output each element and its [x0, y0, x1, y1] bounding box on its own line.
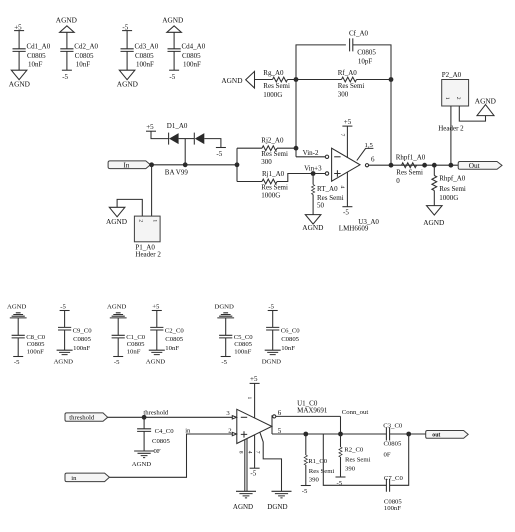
wire	[173, 51, 175, 70]
wire	[143, 417, 145, 429]
svg-text:AGND: AGND	[302, 223, 323, 232]
resistor Rf_A0	[338, 69, 365, 99]
svg-text:1: 1	[246, 397, 252, 400]
wire	[204, 139, 221, 148]
svg-text:C0805: C0805	[27, 341, 45, 348]
svg-text:DGND: DGND	[267, 503, 287, 511]
svg-text:Rhpf1_A0: Rhpf1_A0	[396, 154, 426, 162]
svg-text:50: 50	[317, 202, 325, 210]
power +5 (C2_C0 top)	[152, 303, 162, 310]
svg-text:Cf_A0: Cf_A0	[349, 30, 369, 38]
ground DGND (C5_C0 top)	[215, 304, 235, 318]
ground AGND (C2_C0)	[146, 350, 165, 365]
wire	[64, 330, 66, 350]
svg-text:1000G: 1000G	[261, 192, 280, 200]
svg-text:AGND: AGND	[423, 218, 444, 227]
wire	[151, 131, 169, 138]
svg-text:2: 2	[138, 219, 144, 222]
wire	[108, 416, 233, 418]
resistor Rj1_A0	[237, 170, 325, 199]
wire	[126, 31, 128, 49]
comparator U1_C0 MAX9691	[232, 400, 328, 444]
wire	[390, 433, 426, 435]
power +5 (Cd1)	[14, 23, 24, 31]
svg-text:-5: -5	[114, 359, 120, 366]
svg-text:C2_C0: C2_C0	[165, 327, 185, 334]
svg-text:1: 1	[151, 219, 157, 222]
node on In net (split)	[235, 162, 240, 167]
svg-text:10nF: 10nF	[127, 349, 141, 356]
wire	[390, 80, 392, 166]
svg-text:out: out	[432, 433, 440, 439]
port Out	[458, 161, 502, 170]
svg-text:AGND: AGND	[146, 358, 165, 365]
node (output)	[389, 163, 394, 168]
svg-text:C0805: C0805	[27, 52, 46, 60]
svg-text:8: 8	[237, 451, 243, 454]
wire	[357, 79, 392, 81]
resistor Rj2_A0	[237, 136, 296, 166]
svg-text:Rf_A0: Rf_A0	[338, 69, 358, 77]
ground AGND (RT)	[302, 215, 323, 233]
svg-text:Rg_A0: Rg_A0	[263, 69, 284, 77]
svg-text:Rj2_A0: Rj2_A0	[261, 136, 284, 144]
wire	[117, 338, 119, 357]
wire	[151, 165, 153, 216]
pin 1 +5 power	[246, 375, 259, 418]
svg-text:C0805: C0805	[152, 438, 170, 445]
svg-text:C1_C0: C1_C0	[126, 334, 146, 341]
svg-text:7: 7	[255, 451, 261, 454]
wire	[18, 31, 20, 49]
resistor Rhpf1_A0	[396, 154, 426, 186]
capacitor Cd1_A0	[13, 43, 51, 69]
svg-text:Vin-2: Vin-2	[303, 149, 319, 157]
svg-text:0F: 0F	[154, 448, 161, 455]
resistor Rhpf_A0	[432, 165, 466, 205]
wire	[143, 431, 145, 451]
svg-text:C4_C0: C4_C0	[155, 428, 175, 435]
svg-text:6: 6	[371, 156, 375, 164]
node (Vin+ / RT)	[311, 171, 316, 176]
svg-text:P2_A0: P2_A0	[442, 71, 462, 79]
ground DGND (C6_C0)	[262, 350, 281, 365]
capacitor C6_C0	[266, 327, 300, 351]
wire	[340, 416, 342, 434]
ground AGND (C1_C0 top)	[107, 304, 127, 318]
svg-text:390: 390	[309, 476, 320, 483]
ground AGND (C9_C0)	[54, 350, 73, 365]
svg-text:3: 3	[226, 410, 230, 417]
power -5 (C9_C0 top)	[60, 303, 70, 310]
svg-text:D1_A0: D1_A0	[167, 122, 188, 130]
svg-text:Rhpf_A0: Rhpf_A0	[439, 175, 466, 183]
power -5 (Cd3)	[122, 23, 132, 31]
resistor RT_A0	[311, 174, 343, 215]
svg-text:AGND: AGND	[107, 304, 126, 311]
svg-text:Res Semi: Res Semi	[261, 184, 288, 192]
node (Rhpf)	[432, 163, 437, 168]
svg-text:300: 300	[338, 91, 349, 99]
svg-text:Res Semi: Res Semi	[439, 185, 466, 193]
svg-text:Res Semi: Res Semi	[309, 468, 335, 475]
pin -5 power	[250, 435, 260, 478]
pins 1,5	[357, 142, 374, 161]
svg-text:0F: 0F	[384, 451, 391, 458]
svg-text:AGND: AGND	[117, 80, 138, 89]
svg-text:Res Semi: Res Semi	[317, 194, 344, 202]
power -5 (D1)	[216, 148, 226, 158]
svg-text:-5: -5	[302, 488, 308, 495]
power -5 (R1)	[301, 486, 311, 496]
svg-text:300: 300	[261, 158, 272, 166]
svg-text:R1_C0: R1_C0	[308, 458, 328, 465]
pin 6 output	[276, 409, 341, 417]
svg-text:Res Semi: Res Semi	[263, 82, 290, 90]
svg-text:-5: -5	[62, 73, 68, 81]
power -5 (C8_C0)	[13, 357, 23, 367]
svg-text:AGND: AGND	[106, 217, 127, 226]
svg-text:C0805: C0805	[127, 341, 145, 348]
power -5 (R2)	[336, 477, 346, 487]
svg-text:R2_C0: R2_C0	[344, 447, 364, 454]
svg-text:10nF: 10nF	[281, 345, 295, 352]
svg-text:4: 4	[247, 451, 253, 454]
wire	[126, 51, 128, 70]
svg-text:-5: -5	[14, 359, 20, 366]
svg-text:in: in	[71, 475, 77, 482]
port threshold	[65, 413, 108, 422]
capacitor C7_C0	[384, 475, 404, 512]
svg-text:+5: +5	[152, 303, 160, 310]
svg-text:2: 2	[455, 97, 461, 100]
wire	[179, 138, 195, 140]
wire	[353, 45, 391, 80]
svg-text:Out: Out	[469, 161, 480, 170]
svg-text:C3_C0: C3_C0	[383, 422, 403, 429]
power -5 (C5_C0)	[221, 357, 231, 367]
svg-text:DGND: DGND	[262, 358, 281, 365]
svg-text:-5: -5	[216, 150, 222, 158]
node (out)	[406, 432, 411, 437]
svg-text:C9_C0: C9_C0	[73, 327, 93, 334]
ground AGND (Cd4 top)	[162, 15, 183, 32]
ground AGND (Cd1)	[9, 70, 30, 88]
wire	[109, 434, 232, 477]
ground AGND (P2)	[475, 96, 496, 115]
svg-text:AGND: AGND	[221, 76, 242, 85]
power -5 (Cd4)	[169, 70, 179, 81]
svg-text:DGND: DGND	[215, 304, 234, 311]
wire	[369, 164, 459, 166]
svg-text:-5: -5	[221, 359, 227, 366]
svg-text:Rj1_A0: Rj1_A0	[262, 170, 285, 178]
power -5 (C6_C0 top)	[268, 303, 278, 310]
svg-text:-5: -5	[268, 303, 274, 310]
capacitor C5_C0	[219, 334, 253, 356]
port In	[108, 161, 150, 169]
svg-text:6: 6	[278, 409, 282, 417]
capacitor Cf_A0	[349, 30, 376, 66]
svg-text:Res Semi: Res Semi	[396, 169, 423, 177]
diode D1_A0 BAV99 (right half)	[165, 133, 205, 177]
svg-text:C0805: C0805	[73, 336, 91, 343]
wire	[390, 434, 409, 485]
capacitor Cd4_A0	[168, 43, 206, 69]
svg-text:AGND: AGND	[9, 80, 30, 89]
node (pin6 join)	[338, 432, 343, 437]
svg-text:AGND: AGND	[132, 461, 151, 468]
svg-text:C0805: C0805	[135, 52, 154, 60]
svg-text:C0805: C0805	[182, 52, 201, 60]
svg-text:10nF: 10nF	[76, 61, 91, 69]
node (C4)	[142, 415, 147, 420]
capacitor Cd2_A0	[60, 43, 98, 69]
pin 7 +5 power	[339, 118, 352, 158]
wire	[296, 156, 325, 158]
svg-text:Cd4_A0: Cd4_A0	[182, 43, 206, 51]
svg-text:AGND: AGND	[56, 15, 77, 24]
node (inverting net)	[294, 77, 299, 82]
wire	[296, 45, 346, 80]
wire	[184, 139, 186, 165]
svg-text:+5: +5	[146, 123, 154, 131]
pin 5 output wire	[272, 427, 386, 435]
svg-text:C5_C0: C5_C0	[234, 334, 254, 341]
power -5 (Cd2)	[62, 70, 72, 81]
wire	[17, 318, 19, 335]
wire	[17, 338, 19, 357]
wire	[459, 106, 485, 121]
ground AGND (Rhpf)	[423, 206, 444, 228]
pin 4 -5 power	[339, 172, 352, 217]
wire	[450, 106, 452, 165]
wire	[64, 311, 66, 328]
power +5 (D1)	[146, 123, 156, 131]
node (P2)	[449, 163, 454, 168]
svg-text:In: In	[124, 161, 130, 169]
wire	[66, 51, 68, 70]
svg-text:5: 5	[278, 427, 282, 435]
node on In net (diodes)	[183, 162, 188, 167]
svg-text:C6_C0: C6_C0	[281, 327, 301, 334]
svg-text:threshold: threshold	[69, 415, 95, 422]
svg-text:C0805: C0805	[75, 52, 94, 60]
node (R1)	[303, 432, 308, 437]
node	[422, 163, 427, 168]
svg-text:0: 0	[396, 177, 400, 185]
svg-text:100nF: 100nF	[73, 345, 90, 352]
op-amp U3_A0 LMH6609	[325, 148, 379, 232]
capacitor C8_C0	[12, 334, 46, 356]
svg-text:100nF: 100nF	[234, 349, 251, 356]
svg-text:BA V99: BA V99	[165, 169, 189, 177]
ground AGND (Cd2 top)	[56, 15, 77, 32]
svg-text:MAX9691: MAX9691	[297, 406, 328, 414]
svg-text:Res Semi: Res Semi	[345, 457, 371, 464]
ground AGND (left arrow at Rg)	[221, 71, 254, 88]
svg-text:AGND: AGND	[162, 15, 183, 24]
ground AGND (Cd3)	[117, 70, 138, 88]
power -5 (C1_C0)	[113, 357, 123, 367]
svg-text:RT_A0: RT_A0	[317, 185, 338, 193]
capacitor C4_C0	[137, 428, 174, 455]
node on In net (P1)	[149, 162, 154, 167]
svg-text:C0805: C0805	[165, 336, 183, 343]
wire	[173, 32, 175, 49]
svg-text:Conn_out: Conn_out	[342, 409, 369, 416]
wire	[288, 79, 342, 81]
svg-text:100nF: 100nF	[27, 349, 44, 356]
connector P1_A0 Header 2	[134, 216, 161, 258]
svg-text:100nF: 100nF	[384, 505, 401, 512]
wire	[117, 318, 119, 335]
wire	[236, 148, 238, 181]
port in	[65, 473, 109, 482]
wire	[66, 32, 68, 49]
svg-text:threshold: threshold	[143, 409, 169, 416]
svg-text:AGND: AGND	[7, 304, 26, 311]
svg-text:7: 7	[339, 134, 345, 137]
ground AGND (U1)	[233, 491, 256, 511]
node (Rj2 to fb)	[294, 146, 299, 151]
capacitor C1_C0	[112, 334, 146, 356]
wire	[150, 164, 237, 166]
capacitor Cd3_A0	[121, 43, 159, 69]
ground AGND (C4)	[132, 451, 154, 468]
svg-text:10pF: 10pF	[358, 57, 373, 65]
wire	[272, 311, 274, 328]
resistor R1_C0	[304, 434, 334, 486]
capacitor C3_C0	[383, 422, 403, 458]
capacitor C9_C0	[58, 327, 92, 351]
svg-text:C0805: C0805	[357, 49, 376, 57]
svg-text:Cd3_A0: Cd3_A0	[135, 43, 159, 51]
svg-text:C0805: C0805	[234, 341, 252, 348]
ground AGND (P1)	[106, 207, 127, 226]
svg-text:in: in	[185, 427, 191, 434]
svg-text:100nF: 100nF	[136, 61, 154, 69]
svg-text:10nF: 10nF	[28, 61, 43, 69]
resistor R2_C0	[339, 434, 371, 477]
wire	[225, 338, 227, 357]
svg-text:1000G: 1000G	[439, 194, 458, 202]
svg-text:1000G: 1000G	[263, 91, 282, 99]
wire (C7 loop)	[323, 434, 386, 485]
svg-text:4: 4	[339, 186, 345, 189]
svg-text:-5: -5	[60, 303, 66, 310]
svg-text:Header 2: Header 2	[135, 250, 161, 258]
wire	[117, 199, 142, 216]
svg-text:1: 1	[444, 97, 450, 100]
svg-text:+5: +5	[250, 375, 258, 383]
svg-text:-5: -5	[169, 73, 175, 81]
svg-text:Cd1_A0: Cd1_A0	[27, 43, 51, 51]
node (feedback right)	[389, 77, 394, 82]
wire	[255, 79, 273, 81]
wire	[18, 51, 20, 70]
wire	[272, 330, 274, 350]
svg-text:390: 390	[345, 465, 356, 472]
svg-text:C0805: C0805	[384, 440, 402, 447]
svg-text:2: 2	[228, 428, 231, 435]
wire	[156, 330, 158, 350]
ground DGND (U1)	[267, 491, 291, 511]
port out	[426, 431, 469, 439]
ground AGND (C8_C0 top)	[7, 304, 27, 318]
svg-text:-5: -5	[250, 470, 256, 478]
svg-text:100nF: 100nF	[183, 61, 201, 69]
svg-text:Res Semi: Res Semi	[338, 82, 365, 90]
svg-text:-5: -5	[343, 209, 349, 217]
wire	[225, 318, 227, 335]
svg-text:C7_C0: C7_C0	[384, 475, 404, 482]
svg-text:AGND: AGND	[233, 503, 253, 511]
svg-text:Cd2_A0: Cd2_A0	[74, 43, 98, 51]
wire	[156, 311, 158, 328]
wire	[295, 80, 297, 157]
connector P2_A0 Header 2	[438, 71, 468, 132]
pin to DGND	[260, 432, 282, 491]
svg-text:Res Semi: Res Semi	[261, 150, 288, 158]
svg-text:10nF: 10nF	[165, 345, 179, 352]
svg-text:1,5: 1,5	[365, 142, 374, 149]
svg-text:LMH6609: LMH6609	[339, 225, 369, 233]
resistor Rg_A0	[263, 69, 290, 99]
capacitor C2_C0	[150, 327, 184, 351]
svg-text:C0805: C0805	[281, 336, 299, 343]
svg-text:AGND: AGND	[54, 358, 73, 365]
diode D1_A0 BAV99 (left half)	[167, 122, 188, 145]
svg-text:C8_C0: C8_C0	[26, 334, 46, 341]
svg-text:+5: +5	[344, 118, 352, 126]
power pins 8 4 7	[237, 439, 260, 492]
